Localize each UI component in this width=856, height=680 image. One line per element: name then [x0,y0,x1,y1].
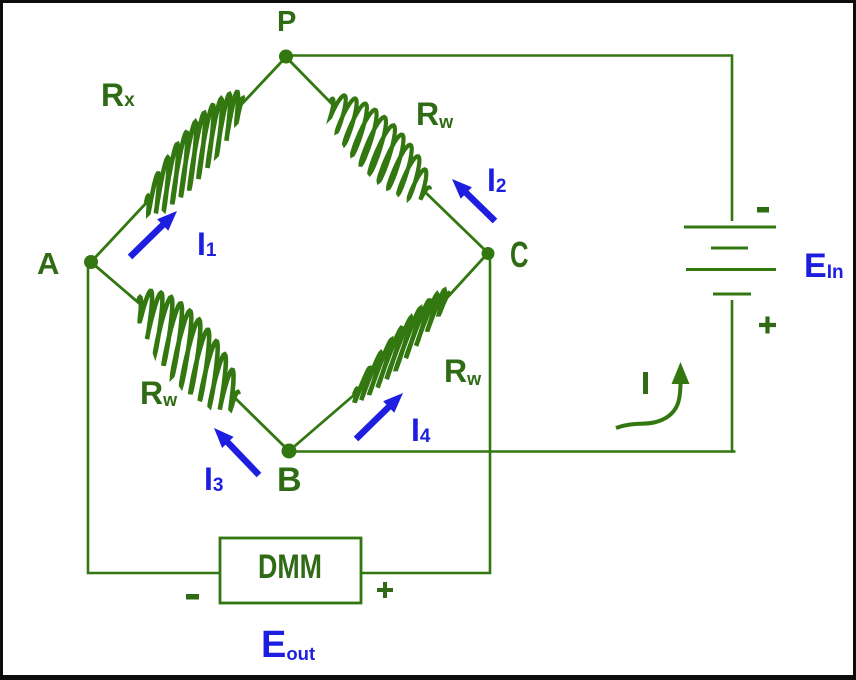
wire battery bottom to bottom rail [731,300,734,453]
node C [482,247,495,260]
resistor Rx (A to P arm) [146,92,243,213]
node P [279,50,293,64]
wire stub Rw to B [233,396,289,451]
node B [282,444,297,459]
label I (battery current) [643,372,648,394]
resistor Rw (P to C arm) [330,95,430,199]
label A [37,246,59,281]
wire stub B to Rw bottom-right [289,389,361,451]
svg-text:Rw: Rw [140,375,178,411]
svg-text:I1: I1 [197,226,217,262]
label I2 [487,162,506,198]
svg-text:I2: I2 [487,162,506,198]
DMM box [220,538,361,603]
label Rw top-right [416,96,454,132]
svg-text:A: A [37,246,59,281]
curved current arrow I [616,362,690,428]
label Rw bottom-left [140,375,178,411]
current arrow I1 [130,211,177,257]
label B [277,461,302,499]
label DMM [258,548,322,586]
svg-text:Eout: Eout [261,624,315,666]
svg-text:Rx: Rx [101,77,135,113]
wire node A down to DMM minus lead [88,263,219,573]
wire stub Rw to C (bottom-right) [445,253,488,300]
wire stub P to Rw top-right [286,57,333,105]
battery plus terminal label [759,317,776,334]
svg-text:Rw: Rw [416,96,454,132]
current arrow I4 [356,393,403,439]
label Rx [101,77,135,113]
wire stub A to Rw bottom-left [91,262,140,304]
svg-text:B: B [277,461,302,499]
resistor Rw (B to C arm) [354,290,449,402]
svg-text:Rw: Rw [444,353,482,389]
wire stub Rw to C [424,191,488,253]
wire stub Rx to P [240,57,286,106]
label I1 [197,226,217,262]
current arrow I2 [452,179,495,221]
svg-text:C: C [510,234,529,275]
label E_out [261,624,315,666]
svg-text:I4: I4 [411,412,431,448]
label C [510,234,529,275]
node A [84,255,98,269]
resistor Rw (A to B arm) [138,291,239,410]
svg-text:I3: I3 [204,461,223,497]
svg-text:P: P [277,6,296,38]
wire node C down to DMM plus lead [362,255,490,573]
wire node B to battery (bottom rail) [289,450,736,453]
wire node P to battery top [288,56,732,222]
svg-text:EIn: EIn [804,247,844,285]
label P [277,6,296,38]
label E_in [804,247,844,285]
wire stub A to Rx [91,201,148,262]
DMM minus label [186,594,199,600]
label Rw bottom-right [444,353,482,389]
battery E_in [684,227,776,294]
current arrow I3 [214,428,259,475]
label I4 [411,412,431,448]
DMM plus label [377,582,393,598]
battery minus terminal label [757,207,769,213]
label I3 [204,461,223,497]
svg-text:DMM: DMM [258,548,322,586]
